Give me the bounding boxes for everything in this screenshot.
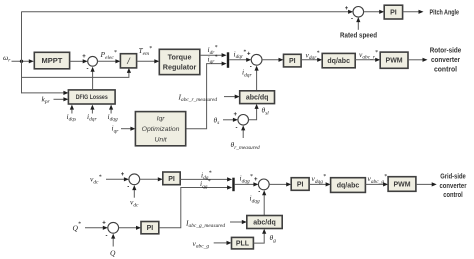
plus sign summer S6 (102, 221, 106, 227)
summer S3 rotor current (251, 54, 262, 65)
wire PI pitch output (403, 10, 424, 14)
svg-text:Iqr: Iqr (157, 116, 166, 123)
svg-text:+: + (121, 172, 125, 178)
minus sign summer S5 (127, 184, 129, 190)
svg-text:abc/dq: abc/dq (246, 95, 269, 102)
wire i_dqr* to summer S3 (229, 58, 251, 62)
summer S4 slip angle (238, 115, 249, 126)
wire v_abc_g to PLL (214, 241, 232, 245)
wire S1 to PI pitch (364, 10, 385, 14)
wire i_dqg* to summer S7 (235, 182, 259, 186)
svg-text:+: + (345, 6, 349, 12)
svg-text:PI: PI (289, 58, 296, 65)
wire S3 to PI rotor (262, 58, 284, 62)
plus sign summer S7 (254, 177, 258, 183)
svg-text:Optimization: Optimization (142, 126, 180, 133)
minus sign summer S4 (236, 126, 238, 132)
plus sign summer S2 (82, 54, 86, 60)
svg-text:Rated speed: Rated speed (340, 31, 377, 40)
svg-text:+: + (254, 177, 258, 183)
wire theta_r_measured into S4 (241, 125, 245, 138)
wire DFIG losses output to summer S2 (91, 67, 95, 90)
svg-text:+: + (247, 52, 251, 58)
svg-text:Unit: Unit (155, 137, 168, 144)
label Rotor-side converter control line3 (434, 65, 457, 74)
dq/abc rotor block (322, 53, 355, 67)
svg-text:control: control (434, 65, 457, 74)
wire i_dqg feedback into S7 (262, 190, 266, 215)
svg-text:MPPT: MPPT (42, 56, 63, 65)
plus sign summer S5 (121, 172, 125, 178)
svg-text:Q: Q (110, 249, 116, 258)
summer S6 Q (108, 222, 119, 233)
wire dq/abc to PWM rotor (355, 58, 380, 62)
merge bar grid currents (232, 178, 234, 192)
wire omega_r to rated-speed summer (22, 10, 354, 14)
abc/dq rotor block (240, 91, 275, 104)
wire theta_s to summer S4 (223, 118, 238, 122)
label Grid-side converter control line3 (443, 190, 463, 199)
svg-text:control: control (443, 190, 463, 199)
wire i_dqs into DFIG losses (70, 105, 74, 114)
svg-text:PI: PI (168, 176, 175, 183)
wire S5 to PI vdc (140, 177, 163, 181)
abc/dq grid block (247, 216, 282, 229)
node junction omega_r (20, 60, 23, 63)
svg-text:Regulator: Regulator (163, 62, 197, 71)
svg-text:dq/abc: dq/abc (337, 183, 360, 190)
plus sign summer S3 (247, 52, 251, 58)
svg-text:-: - (258, 190, 260, 196)
svg-text:+: + (82, 54, 86, 60)
MPPT block (34, 52, 69, 69)
wire Q feedback into S6 (111, 234, 115, 247)
wire v_dc* to summer S5 (106, 177, 129, 181)
wire I_abc_r_measured to abc/dq (224, 95, 240, 99)
wire k_pr to DFIG losses (54, 97, 69, 101)
wire PWM grid output (416, 182, 437, 186)
label Rotor-side converter control line2 (431, 55, 460, 64)
wire omega_r to divider bottom (22, 68, 132, 78)
PI vdc controller (163, 172, 180, 185)
dq/abc grid block (331, 178, 366, 193)
svg-text:+: + (102, 221, 106, 227)
wire PWM rotor output (408, 58, 428, 62)
label Grid-side converter control line1 (440, 171, 466, 180)
plus sign rated-speed summer (345, 6, 349, 12)
summer S5 vdc (129, 174, 140, 185)
svg-text:converter: converter (440, 181, 467, 190)
minus sign summer S3 (250, 64, 252, 70)
Torque Regulator block (159, 49, 200, 74)
wire omega_r to MPPT (12, 59, 34, 63)
svg-text:-: - (236, 126, 238, 132)
minus sign summer S6 (106, 234, 108, 240)
svg-text:abc/dq: abc/dq (253, 219, 276, 226)
svg-text:-: - (127, 184, 129, 190)
minus sign summer S7 (258, 190, 260, 196)
svg-text:Pitch Angle: Pitch Angle (430, 7, 460, 16)
wire PI grid to dq/abc grid (309, 182, 331, 186)
svg-text:Rotor-side: Rotor-side (430, 45, 462, 54)
svg-text:PI: PI (297, 181, 304, 188)
label Pitch Angle (430, 7, 460, 16)
svg-text:dq/abc: dq/abc (327, 58, 350, 65)
svg-text:-: - (250, 64, 252, 70)
label Rated speed (340, 31, 377, 40)
wire divider to torque regulator (137, 59, 160, 63)
wire omega_r to DFIG losses (22, 91, 69, 95)
wire I_abc_g_measured to abc/dq grid (230, 220, 247, 224)
label Grid-side converter control line2 (440, 181, 467, 190)
svg-text:-: - (351, 17, 353, 23)
svg-text:PI: PI (390, 10, 397, 17)
minus sign rated-speed summer (351, 17, 353, 23)
wire PI rotor to dq/abc (301, 58, 322, 62)
svg-text:-: - (106, 234, 108, 240)
svg-text:+: + (234, 112, 238, 118)
label Rotor-side converter control line1 (430, 45, 462, 54)
summer S2 Pelec (88, 56, 98, 66)
wire theta_sl to abc/dq rotor (249, 104, 259, 120)
svg-text:PLL: PLL (236, 241, 250, 248)
svg-text:Grid-side: Grid-side (440, 171, 466, 180)
PI pitch controller (384, 5, 402, 19)
wire i_dr* to merge bar (200, 53, 227, 57)
DFIG Losses block (68, 90, 115, 104)
plus sign summer S4 (234, 112, 238, 118)
wire i_qr to Iqr unit (121, 127, 135, 131)
wire i_qr* from Iqr unit to merge bar (186, 62, 227, 129)
PLL block (232, 237, 254, 249)
wire dq/abc grid to PWM grid (365, 182, 388, 186)
PI grid current controller (291, 178, 309, 191)
wire theta_g from PLL to abc/dq grid (253, 229, 266, 243)
wire i_dg* to merge bar 2 (180, 177, 232, 181)
PWM grid block (388, 177, 416, 192)
wire MPPT to summer S2 (70, 59, 88, 63)
minus sign summer S2 (87, 67, 89, 73)
svg-text:-: - (87, 67, 89, 73)
PWM rotor block (380, 52, 408, 68)
wire Q* to summer S6 (85, 226, 108, 230)
summer S1 rated speed (353, 7, 364, 18)
wire omega_r vertical branch (21, 12, 23, 94)
wire v_dc feedback into S5 (132, 185, 136, 198)
wire S7 to PI grid (269, 182, 291, 186)
wire rated speed into summer S1 (356, 17, 360, 30)
svg-text:DFIG Losses: DFIG Losses (76, 94, 108, 101)
Iqr Optimization Unit block (135, 112, 185, 146)
wire i_qg* from PI Q to merge bar 2 (159, 185, 232, 227)
divider block / (120, 54, 136, 68)
svg-text:Torque: Torque (168, 53, 192, 62)
svg-text:PWM: PWM (386, 58, 403, 65)
svg-text:converter: converter (431, 55, 460, 64)
wire S2 to divider (98, 59, 121, 63)
svg-text:PI: PI (147, 225, 154, 232)
wire S6 to PI Q (119, 226, 141, 230)
summer S7 grid current (258, 179, 269, 190)
wire i_dqg into DFIG losses (109, 105, 113, 114)
wire i_dqr into DFIG losses (90, 105, 94, 114)
wire i_dqr feedback into S3 (255, 66, 259, 91)
PI Q controller (141, 222, 159, 234)
merge bar rotor currents (227, 52, 229, 68)
PI rotor current controller (284, 54, 302, 67)
svg-text:PWM: PWM (393, 181, 410, 188)
